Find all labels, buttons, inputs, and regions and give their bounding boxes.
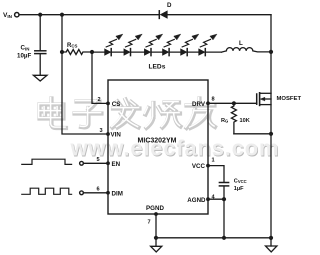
svg-text:L: L — [239, 40, 243, 47]
svg-text:CVCC: CVCC — [234, 178, 247, 184]
svg-text:D: D — [167, 2, 172, 9]
junction top wire / vertical A — [60, 13, 64, 17]
LED D5 — [181, 49, 187, 55]
svg-text:DRV: DRV — [192, 101, 206, 108]
svg-text:3: 3 — [100, 128, 103, 134]
svg-text:MOSFET: MOSFET — [277, 96, 302, 102]
node EN terminal — [80, 161, 84, 165]
wire CS feed — [92, 52, 108, 103]
svg-text:RG: RG — [221, 118, 228, 124]
svg-text:10K: 10K — [240, 118, 250, 124]
LED D2 — [124, 49, 130, 55]
LED D6 — [199, 49, 205, 55]
node DIM terminal — [80, 191, 84, 195]
svg-text:AGND: AGND — [187, 197, 206, 204]
svg-text:2: 2 — [98, 97, 101, 103]
svg-text:5: 5 — [97, 157, 100, 163]
MOSFET Q1 — [256, 94, 258, 104]
svg-text:1: 1 — [212, 158, 215, 164]
inductor L — [222, 48, 272, 53]
junction Rcs / CS line — [90, 50, 94, 54]
junction rail / right vertical — [269, 236, 273, 240]
DIM square waveform — [22, 188, 72, 194]
svg-text:VIN: VIN — [3, 12, 13, 19]
wire AGND — [208, 198, 224, 200]
svg-text:1µF: 1µF — [234, 186, 244, 192]
wire EN — [84, 162, 108, 164]
svg-text:DIM: DIM — [112, 190, 123, 197]
junction rail / Cvcc — [222, 236, 226, 240]
svg-text:6: 6 — [97, 186, 100, 192]
LED D3 — [144, 49, 150, 55]
svg-text:EN: EN — [112, 161, 121, 168]
svg-text:CIN: CIN — [21, 45, 30, 52]
pin 6 DIM dot — [106, 191, 110, 195]
resistor R_CS — [62, 50, 92, 55]
svg-text:7: 7 — [148, 220, 151, 226]
junction top wire / Cin — [38, 13, 42, 17]
junction A / Rcs — [60, 50, 64, 54]
capacitor C_VCC — [219, 182, 228, 184]
pin 8 DRV dot — [206, 101, 210, 105]
wire top rail right (diode D to right corner) — [167, 14, 271, 16]
junction rail / PGND — [154, 236, 158, 240]
wire DRV to gate — [208, 102, 257, 104]
node Vin terminal — [15, 13, 19, 17]
junction source node — [269, 132, 273, 136]
svg-text:CS: CS — [112, 101, 121, 108]
wire right vertical — [270, 15, 272, 238]
IC U1 MIC3202 box — [108, 80, 208, 214]
capacitor C_IN — [39, 15, 41, 51]
svg-text:10µF: 10µF — [17, 53, 31, 60]
diode D — [158, 11, 160, 19]
wire Rg to source node — [234, 133, 271, 135]
pin 1 VCC dot — [206, 164, 210, 168]
bottom ground rail — [156, 237, 271, 239]
LED D1 — [105, 49, 111, 55]
pin 4 AGND dot — [206, 197, 210, 201]
junction L / right vertical — [269, 50, 273, 54]
wire VCC — [208, 166, 224, 182]
LED arrows — [106, 34, 217, 47]
pin 5 EN dot — [106, 161, 110, 165]
wire vertical A (Vin to VIN pin) — [62, 15, 108, 134]
junction DRV / Rg — [232, 101, 236, 105]
ground (PGND) — [155, 238, 157, 246]
svg-text:LEDs: LEDs — [149, 64, 166, 71]
ground (Cin) — [33, 75, 47, 81]
pin 3 VIN dot — [106, 132, 110, 136]
pin 2 CS dot — [106, 102, 110, 106]
wire Cvcc to AGND/ground — [223, 187, 225, 238]
svg-text:VCC: VCC — [192, 163, 206, 170]
pin 7 PGND dot — [154, 212, 158, 216]
ground (right) — [270, 238, 272, 246]
junction AGND / Cvcc — [222, 197, 226, 201]
svg-text:MIC3202YM: MIC3202YM — [138, 138, 177, 145]
LED D4 — [163, 49, 169, 55]
svg-text:PGND: PGND — [146, 205, 164, 212]
resistor RG 10K (gate-source) — [231, 103, 236, 134]
svg-text:8: 8 — [212, 96, 215, 102]
wire LED string — [92, 51, 222, 53]
wire PGND stub — [155, 214, 157, 238]
wire DIM — [84, 192, 108, 194]
svg-text:VIN: VIN — [111, 132, 122, 139]
EN pulse waveform — [22, 159, 72, 164]
svg-text:RCS: RCS — [67, 43, 78, 49]
wire top rail left (Vin to diode D) — [19, 14, 159, 16]
